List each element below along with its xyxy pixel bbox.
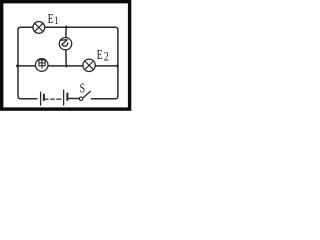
svg-text:E: E [48, 10, 54, 26]
svg-text:1: 1 [54, 15, 59, 27]
svg-text:S: S [80, 80, 85, 96]
svg-text:E: E [97, 46, 103, 62]
svg-text:2: 2 [104, 50, 109, 64]
